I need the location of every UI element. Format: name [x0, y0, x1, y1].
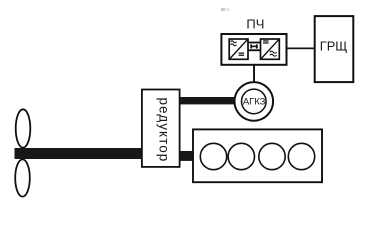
- svg-text:редуктор: редуктор: [156, 97, 171, 162]
- svg-text:АГКЗ: АГКЗ: [243, 96, 266, 107]
- svg-text:ГРЩ: ГРЩ: [320, 38, 347, 53]
- svg-text:ПЧ: ПЧ: [246, 17, 264, 32]
